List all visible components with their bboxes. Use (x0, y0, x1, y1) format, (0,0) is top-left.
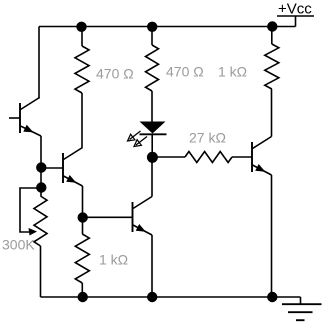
resistor R3 1 kohm (265, 27, 279, 90)
svg-text:300K: 300K (2, 237, 35, 253)
wire top power rail (39, 26, 296, 28)
wire wiper connection (20, 188, 41, 232)
node rail junction Q4 emitter (267, 292, 277, 302)
wire R1 bottom to Q2 collector (81, 93, 83, 148)
wire Q3 emitter down to rail (151, 235, 153, 297)
transistor Q2 (63, 148, 83, 187)
wire pot bottom to rail (40, 246, 42, 297)
ground (282, 297, 322, 320)
wire node A to Q2 base (41, 167, 63, 169)
power +Vcc (277, 1, 314, 27)
wire Q1 collector to rail (38, 97, 41, 100)
potentiometer R6 300K body (34, 196, 47, 246)
node rail junction Q3 emitter (147, 292, 157, 302)
LED light arrow 1 (128, 131, 141, 141)
label 300K (2, 237, 35, 253)
LED light arrow 2 (134, 137, 147, 147)
node top rail junction R3 (267, 21, 277, 31)
label R3 1 kohm (218, 64, 247, 80)
node D (LED cathode junction) (147, 152, 158, 163)
wire Q1 emitter down (40, 136, 42, 196)
node A (Q2 base tap) (36, 162, 46, 172)
resistor R4 27 kohm (185, 152, 232, 163)
svg-text:1 kΩ: 1 kΩ (218, 64, 247, 80)
wire R5 bottom to rail (81, 283, 83, 297)
wire Q4 collector up to R3 (271, 89, 273, 137)
transistor Q4 (252, 137, 272, 176)
node top rail junction R2 (147, 22, 157, 32)
wire LED cathode down to node D (151, 134, 153, 157)
svg-text:+Vcc: +Vcc (278, 1, 312, 18)
resistor R2 470 ohm (146, 27, 159, 91)
transistor Q3 (133, 197, 153, 236)
wire node C to Q3 base (83, 216, 133, 218)
node C (Q3 base tap) (78, 212, 88, 222)
wire R4 to Q4 base (232, 156, 252, 158)
wire R2 bottom to LED anode (151, 91, 153, 122)
wire left rail corner down to Q1 collector (38, 27, 40, 99)
wire node D to R4 (152, 156, 185, 158)
svg-text:470 Ω: 470 Ω (166, 64, 204, 80)
transistor Q1 (9, 98, 41, 137)
wiper arrow (29, 228, 38, 236)
svg-text:1 kΩ: 1 kΩ (99, 252, 128, 268)
node top rail junction R1 (76, 22, 86, 32)
label R4 27 kohm (189, 130, 226, 146)
label R1 470 ohm (96, 66, 134, 82)
svg-text:27 kΩ: 27 kΩ (189, 130, 226, 146)
wire Q3 collector up to node D (151, 157, 153, 197)
label R2 470 ohm (166, 64, 204, 80)
wire Q2 emitter down to node C (82, 186, 84, 234)
svg-text:470 Ω: 470 Ω (96, 66, 134, 82)
node B (wiper tap) (36, 182, 46, 192)
resistor R5 1 kohm (75, 234, 89, 283)
wire bottom rail (41, 296, 301, 298)
LED D1 (140, 122, 167, 135)
label R5 1 kohm (99, 252, 128, 268)
resistor R1 470 ohm (75, 27, 89, 93)
wire Q4 emitter down to rail (271, 175, 273, 297)
node rail junction R5 (78, 292, 88, 302)
